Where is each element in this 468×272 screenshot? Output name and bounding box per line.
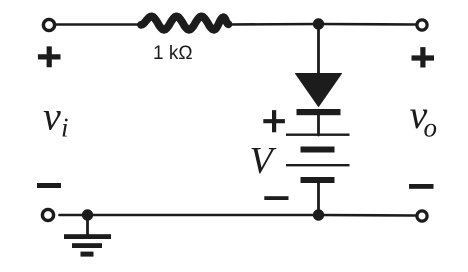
svg-text:V: V [250, 140, 277, 182]
node C junction dot [82, 209, 93, 220]
polarity plus (output top) [412, 47, 435, 67]
ground symbol [64, 234, 111, 256]
wire: diode cathode to battery top plate [317, 114, 320, 135]
wire: node A down to diode anode [317, 24, 320, 75]
svg-text:i: i [61, 113, 69, 143]
battery V: bottom short thick plate [301, 177, 335, 183]
wire: battery bottom plate to node B [317, 181, 320, 215]
wire bottom: left terminal to node C [60, 214, 88, 217]
battery plus sign [263, 110, 285, 132]
polarity plus (input top) [38, 46, 61, 67]
node A junction dot [313, 18, 324, 29]
battery V: top long thin plate [286, 134, 350, 136]
wire top: left terminal to resistor [57, 23, 142, 26]
battery minus sign [264, 196, 288, 200]
wire bottom: node B to right terminal [319, 214, 416, 217]
wire bottom: node C to node B [88, 214, 319, 217]
terminal: output top (open circle) [417, 20, 427, 30]
polarity minus (output bottom) [409, 184, 434, 189]
wire top: node A to right terminal [319, 23, 416, 26]
wire top: resistor to node A [229, 23, 319, 26]
svg-text:1 kΩ: 1 kΩ [153, 43, 193, 64]
wire: ground stem from node C [86, 215, 89, 235]
svg-text:o: o [424, 113, 438, 143]
polarity minus (input bottom) [37, 183, 61, 188]
terminal: input bottom (open circle) [42, 209, 53, 220]
diode D1 triangle (anode) [296, 74, 342, 107]
diode D1 cathode bar [297, 109, 341, 115]
battery V: lower long thin plate [286, 164, 350, 166]
terminal: input top (open circle) [43, 19, 54, 30]
svg-text:v: v [43, 94, 61, 139]
terminal: output bottom (open circle) [417, 211, 427, 221]
resistor R 1 kOhm [141, 16, 229, 29]
battery V: upper short thick plate [301, 147, 335, 153]
node B junction dot [313, 209, 324, 220]
